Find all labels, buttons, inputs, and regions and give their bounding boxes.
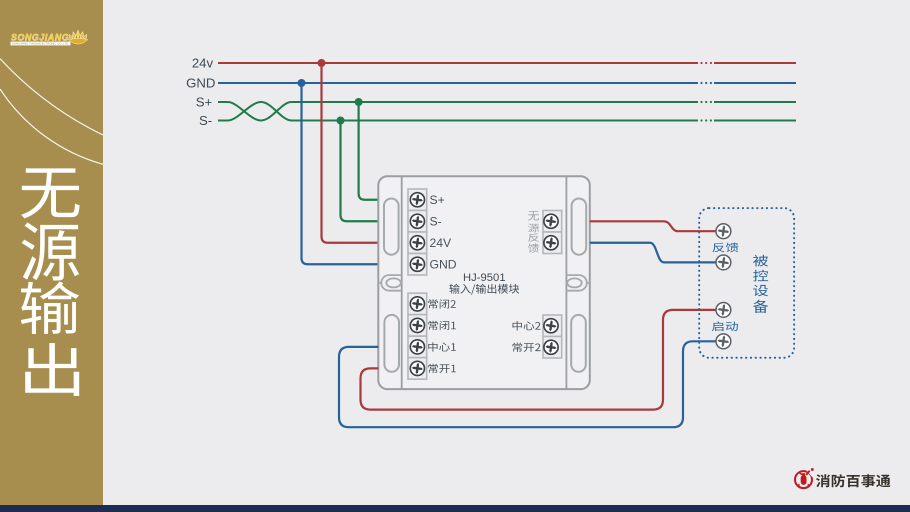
terminal block S+/S-/24V/GND [408, 189, 427, 275]
company logo SONGJIANG [11, 33, 71, 46]
svg-text:24v: 24v [192, 55, 214, 70]
terminal block 常闭/中心/常开 [408, 293, 427, 379]
terminal screw 中心2 [544, 319, 558, 333]
svg-text:SONGJIANG YIHUA ELECTRONIC CO.: SONGJIANG YIHUA ELECTRONIC CO.,LTD [12, 42, 68, 46]
logo lotus icon [68, 30, 88, 44]
terminal screw 中心1 [410, 340, 424, 354]
pin label 常闭1 [428, 321, 455, 330]
svg-text:S-: S- [430, 215, 442, 229]
wire bus S- with twisted pair [218, 102, 698, 121]
sidebar title 无源输出 [21, 168, 80, 396]
svg-text:24V: 24V [430, 236, 453, 250]
svg-text:S+: S+ [430, 193, 445, 207]
terminal screw 常闭2 [410, 297, 424, 311]
module mounting slots [384, 199, 586, 372]
device terminal 启动 top [716, 303, 731, 318]
wire bus GND [218, 82, 698, 84]
svg-text:S+: S+ [196, 94, 213, 109]
terminal block 无源反馈 [543, 211, 562, 254]
wire 中心1 to 启动 [339, 341, 716, 427]
terminal screw 无源反馈 top [544, 214, 558, 228]
label 被控设备 [753, 255, 768, 313]
module side keyholes [378, 275, 590, 291]
svg-text:GND: GND [430, 258, 457, 272]
svg-text:GND: GND [186, 75, 215, 90]
pin label 常闭2 [428, 299, 455, 308]
wire GND to module [302, 83, 379, 264]
label 反馈 [713, 243, 739, 253]
wire 无源反馈- to 反馈 [590, 243, 716, 263]
terminal screw 24V [410, 236, 424, 250]
device terminal 启动 bottom [716, 334, 731, 349]
wire 24v to module [322, 63, 379, 243]
junction dot S- [337, 117, 345, 125]
wire bus S+ with twisted pair [218, 102, 698, 121]
device terminal 反馈 bottom [716, 255, 731, 270]
pin label 常开2 [512, 343, 540, 352]
module HJ-9501 body [378, 176, 590, 389]
pin label 中心2 [512, 321, 540, 330]
label 无源反馈 [528, 211, 539, 253]
terminal screw S- [410, 214, 424, 228]
wire S- to module [341, 121, 379, 222]
terminal screw 常开1 [410, 361, 424, 375]
wire bus 24v [218, 62, 698, 64]
pin label 中心1 [428, 342, 455, 351]
svg-text:SONGJIANG: SONGJIANG [11, 33, 69, 43]
svg-text:S-: S- [199, 113, 212, 128]
terminal screw GND [410, 257, 424, 271]
terminal screw 常开2 [544, 340, 558, 354]
footer bar [0, 505, 910, 512]
terminal block 中心2/常开2 [543, 315, 562, 358]
controlled device box 被控设备 [699, 208, 794, 358]
module title 输入/输出模块 [449, 284, 519, 295]
wire S+ to module [359, 102, 379, 200]
sidebar panel [0, 0, 103, 505]
watermark logo 消防百事通 [795, 468, 814, 488]
terminal screw 无源反馈 bottom [544, 236, 558, 250]
junction dot 24v [318, 59, 326, 67]
wire 无源反馈+ to 反馈 [590, 221, 716, 231]
pin label 常开1 [428, 364, 455, 373]
junction dot GND [298, 79, 306, 87]
terminal screw 常闭1 [410, 318, 424, 332]
terminal screw S+ [410, 193, 424, 207]
junction dot S+ [355, 98, 363, 106]
sidebar arc decoration [0, 59, 103, 165]
svg-text:HJ-9501: HJ-9501 [463, 272, 506, 284]
wire 常开1 to 启动 [361, 310, 717, 410]
module flange lines [401, 176, 403, 389]
device terminal 反馈 top [716, 224, 731, 239]
label 启动 [712, 321, 738, 331]
